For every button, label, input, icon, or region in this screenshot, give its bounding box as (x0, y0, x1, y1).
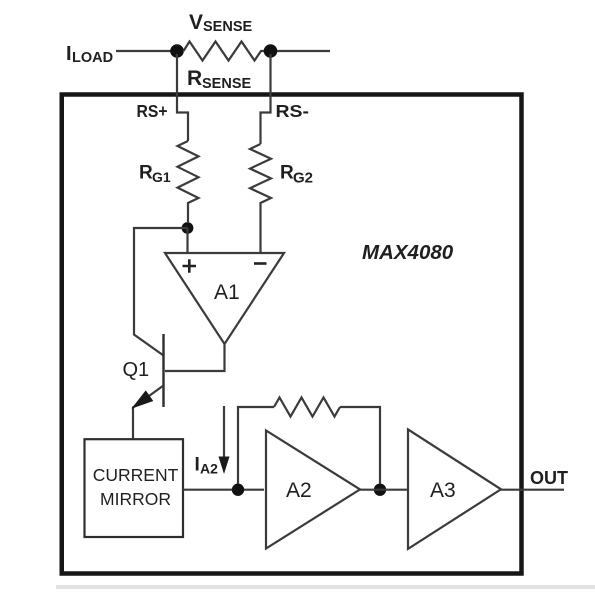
transistor Q1 base bar (162, 334, 164, 407)
amplifier A2 (266, 431, 360, 549)
label RSENSE (187, 67, 251, 92)
svg-text:R: R (139, 163, 153, 184)
wire node A to A1 + input (186, 228, 188, 253)
resistor RG2 (250, 144, 271, 253)
plus sign at A1 + input (183, 259, 197, 272)
resistor RG1 (178, 141, 199, 222)
IC boundary box MAX4080 (62, 95, 522, 574)
svg-text:SENSE: SENSE (202, 76, 251, 92)
wire from ILOAD to left node (116, 50, 171, 52)
op-amp A1 (165, 253, 284, 344)
node C (A2 output junction dot) (374, 484, 386, 496)
label RG2 (280, 163, 313, 187)
svg-text:A3: A3 (430, 479, 456, 502)
minus sign at A1 - input (254, 262, 267, 265)
wire node A to Q1 upper lead (134, 228, 188, 356)
svg-text:LOAD: LOAD (72, 50, 113, 66)
svg-text:A1: A1 (214, 281, 240, 304)
amplifier A3 (408, 429, 501, 549)
node A (RG1 / A1+ / Q1 junction dot) (182, 222, 194, 234)
svg-text:MAX4080: MAX4080 (362, 241, 454, 264)
wire RS+ pin into box with jog (177, 54, 188, 141)
svg-text:A2: A2 (200, 461, 218, 477)
wire from right node to the right (277, 50, 330, 52)
svg-text:I: I (195, 455, 200, 476)
node right sense (junction dot) (264, 44, 278, 58)
svg-text:G2: G2 (293, 170, 313, 187)
label VSENSE (189, 11, 252, 35)
label RG1 (139, 163, 171, 186)
wire RS- pin into box with jog (261, 54, 271, 144)
label ILOAD (66, 43, 113, 66)
svg-text:I: I (66, 43, 72, 65)
decorative bottom rule (56, 585, 595, 589)
wire current mirror output to A2 input (183, 489, 264, 491)
wire A1 output to Q1 base (165, 344, 225, 371)
svg-text:CURRENT: CURRENT (93, 465, 179, 485)
Q1 emitter arrowhead (134, 392, 153, 408)
svg-text:Q1: Q1 (123, 359, 150, 381)
svg-text:RS-: RS- (276, 101, 310, 121)
svg-text:V: V (189, 11, 203, 34)
node left sense (junction dot) (170, 44, 184, 58)
IA2 current arrow (223, 406, 225, 457)
wire feedback right riser (340, 407, 380, 484)
feedback resistor around A2 (274, 398, 340, 417)
resistor RSENSE (184, 42, 265, 61)
label IA2 (195, 455, 219, 477)
svg-text:OUT: OUT (530, 468, 568, 488)
wire feedback left riser (238, 407, 274, 484)
wire A2 output to A3 input (360, 489, 408, 491)
current mirror block (85, 439, 184, 537)
svg-text:R: R (280, 163, 294, 184)
node B (A2 input junction dot) (232, 484, 244, 496)
transistor Q1 lower lead with emitter arrow (133, 386, 164, 439)
svg-text:MIRROR: MIRROR (100, 489, 171, 509)
svg-text:RS+: RS+ (137, 101, 168, 121)
svg-text:R: R (187, 67, 202, 90)
svg-text:SENSE: SENSE (203, 19, 252, 35)
wire A3 output to OUT pin (501, 489, 564, 491)
svg-text:A2: A2 (286, 479, 312, 502)
svg-text:G1: G1 (152, 169, 171, 185)
